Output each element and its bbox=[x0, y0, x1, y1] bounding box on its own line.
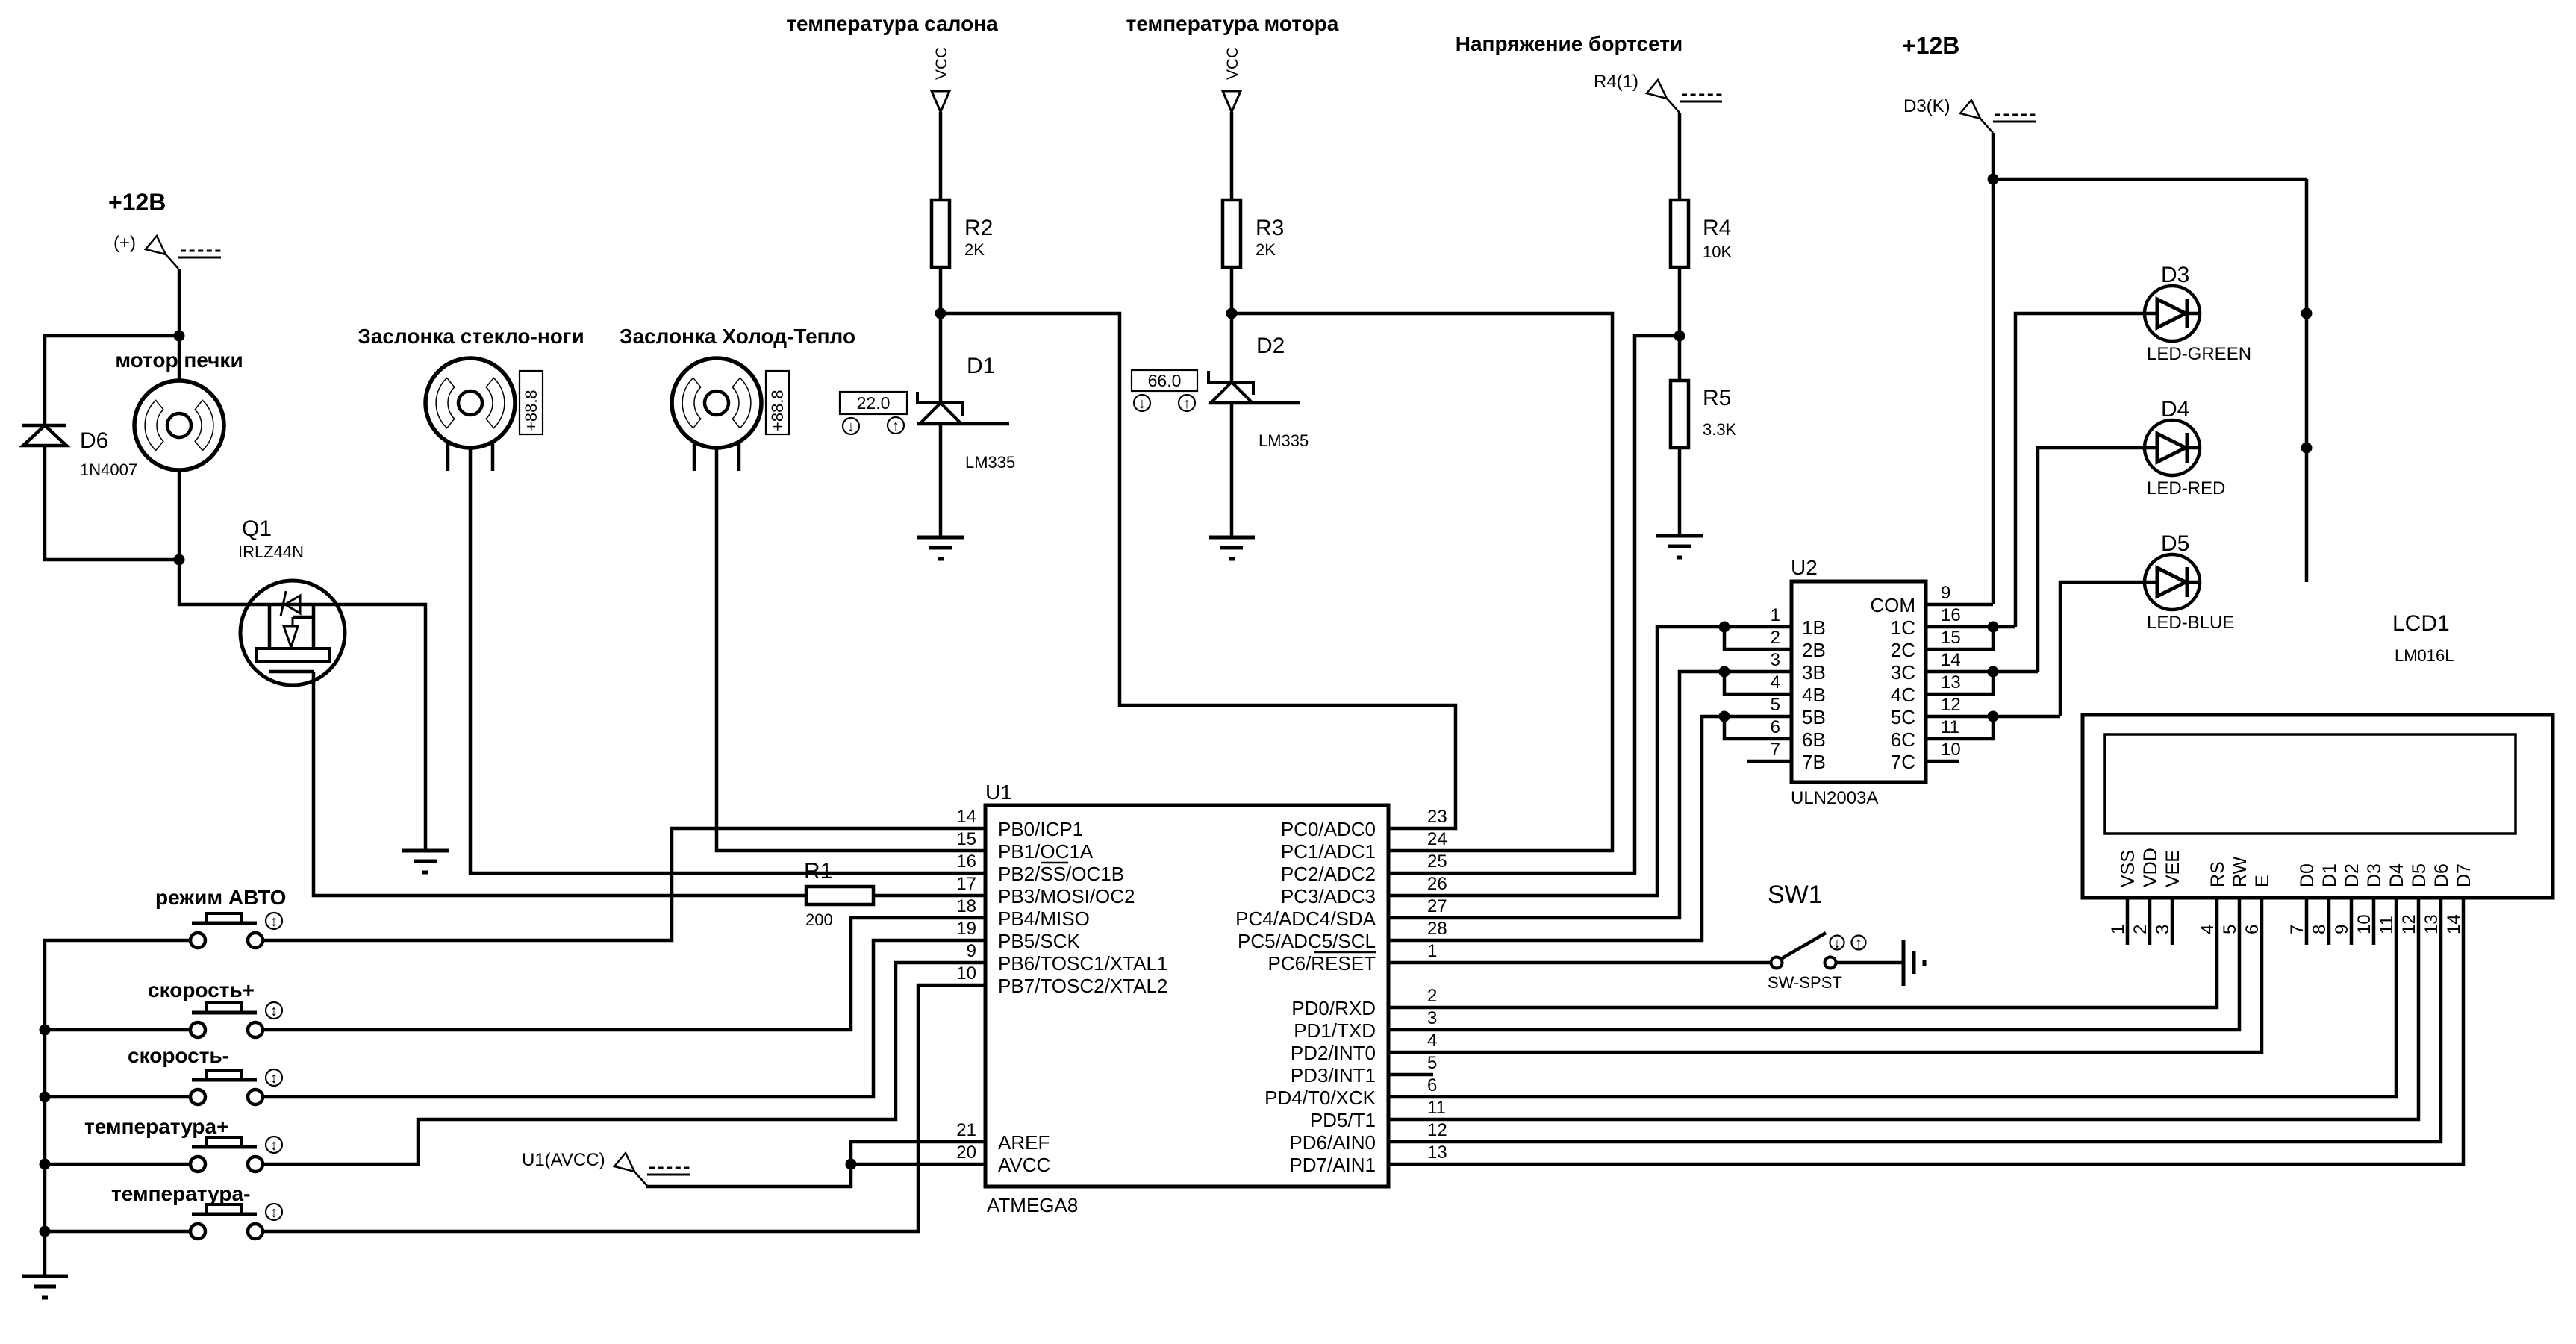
svg-text:4C: 4C bbox=[1891, 684, 1915, 706]
svg-text:+12В: +12В bbox=[108, 189, 166, 216]
LCD1 screen bbox=[2105, 734, 2516, 834]
svg-text:R3: R3 bbox=[1256, 216, 1284, 240]
svg-text:PC3/ADC3: PC3/ADC3 bbox=[1281, 885, 1376, 907]
push button скорость+ bbox=[148, 978, 263, 1037]
svg-text:D3: D3 bbox=[2364, 863, 2385, 887]
meter 22.0 bbox=[840, 392, 907, 414]
svg-text:↓: ↓ bbox=[1833, 935, 1841, 951]
svg-text:11: 11 bbox=[1941, 717, 1959, 737]
wire D6 branch left bbox=[45, 336, 179, 425]
wire D1 cathode bbox=[939, 313, 943, 403]
wire D2 cathode bbox=[1230, 313, 1234, 382]
svg-text:2: 2 bbox=[1771, 628, 1780, 648]
wire R1 to PB3 bbox=[873, 894, 985, 898]
ground D2 bbox=[1209, 537, 1255, 559]
power terminal VCC 1 bbox=[932, 91, 949, 112]
LCD pin D3 stub bbox=[2372, 898, 2376, 945]
node 3C-4C junction bbox=[1988, 666, 1999, 678]
svg-text:13: 13 bbox=[1941, 672, 1961, 693]
LCD pin VDD stub bbox=[2148, 898, 2152, 945]
node divider bbox=[1674, 331, 1685, 342]
svg-text:1: 1 bbox=[2108, 925, 2128, 934]
svg-text:(+): (+) bbox=[113, 233, 136, 253]
wire D2 anode to ground bbox=[1230, 401, 1234, 537]
svg-text:16: 16 bbox=[1941, 605, 1961, 625]
power terminal VCC 2 bbox=[1223, 91, 1241, 112]
svg-text:VSS: VSS bbox=[2118, 850, 2139, 887]
svg-text:Q1: Q1 bbox=[242, 516, 272, 541]
svg-text:ULN2003A: ULN2003A bbox=[1791, 788, 1878, 808]
svg-text:VDD: VDD bbox=[2140, 848, 2161, 887]
wire PD7 to LCD D7 bbox=[1388, 896, 2463, 1164]
svg-text:PB6/TOSC1/XTAL1: PB6/TOSC1/XTAL1 bbox=[998, 952, 1167, 975]
svg-text:4: 4 bbox=[1771, 672, 1780, 693]
wire button rail bbox=[45, 940, 190, 1276]
wire PB3 row left of R1 is drawn with Q1 gate bbox=[0, 0, 1, 1]
wire PC6 to SW1 bbox=[1388, 961, 1771, 965]
svg-text:режим АВТО: режим АВТО bbox=[155, 886, 286, 909]
svg-text:D5: D5 bbox=[2409, 863, 2430, 887]
overline RESET on PC6 bbox=[1314, 951, 1376, 954]
wire AVCC node to AREF pin 21 bbox=[851, 1142, 985, 1164]
push button режим АВТО bbox=[155, 886, 286, 948]
diode D6 (1N4007) bbox=[22, 425, 66, 446]
svg-text:LM016L: LM016L bbox=[2395, 646, 2454, 665]
svg-text:D3: D3 bbox=[2161, 263, 2189, 287]
svg-text:5C: 5C bbox=[1891, 706, 1915, 728]
node motor bottom junction bbox=[174, 554, 185, 566]
wire PD6 to LCD D6 bbox=[1388, 896, 2441, 1142]
svg-text:PC2/ADC2: PC2/ADC2 bbox=[1281, 863, 1376, 885]
svg-text:D3(K): D3(K) bbox=[1903, 96, 1950, 116]
svg-text:6: 6 bbox=[1427, 1075, 1437, 1095]
wire +12V flag to motor node bbox=[178, 269, 181, 336]
wire D1 anode to ground bbox=[939, 424, 943, 537]
svg-text:↓: ↓ bbox=[847, 419, 855, 435]
node motor top junction bbox=[174, 331, 185, 342]
resistor R4 bbox=[1671, 200, 1688, 267]
ground SW1 (rotated) bbox=[1903, 940, 1924, 986]
svg-text:Заслонка стекло-ноги: Заслонка стекло-ноги bbox=[358, 325, 584, 348]
svg-text:RW: RW bbox=[2230, 856, 2251, 887]
svg-text:Заслонка Холод-Тепло: Заслонка Холод-Тепло bbox=[620, 325, 855, 348]
wire D1 node to PC0 pin 23 bbox=[941, 313, 1456, 828]
svg-text:4: 4 bbox=[1427, 1031, 1437, 1051]
svg-text:15: 15 bbox=[1941, 628, 1961, 648]
svg-text:COM: COM bbox=[1870, 594, 1915, 616]
overline SS on PB2 bbox=[1041, 862, 1068, 864]
wire motor bottom lead bbox=[178, 470, 181, 560]
svg-text:LED-BLUE: LED-BLUE bbox=[2147, 613, 2234, 633]
svg-text:26: 26 bbox=[1427, 874, 1447, 894]
svg-text:D6: D6 bbox=[2431, 863, 2452, 887]
button toggle marker bbox=[266, 1002, 282, 1019]
svg-text:1N4007: 1N4007 bbox=[80, 460, 137, 479]
svg-text:4B: 4B bbox=[1802, 684, 1826, 706]
svg-text:LM335: LM335 bbox=[1259, 431, 1309, 450]
toggle arrow down SW1 bbox=[1830, 936, 1844, 950]
ground button rail bbox=[22, 1276, 68, 1298]
svg-text:Напряжение бортсети: Напряжение бортсети bbox=[1456, 32, 1683, 55]
push button скорость- bbox=[128, 1044, 263, 1104]
svg-text:LED-GREEN: LED-GREEN bbox=[2147, 344, 2251, 364]
svg-text:21: 21 bbox=[956, 1120, 976, 1140]
servo1 left pin bbox=[446, 442, 450, 471]
wire PB4 to скорость+ bbox=[263, 918, 985, 1030]
svg-text:17: 17 bbox=[956, 874, 976, 894]
node rail 1380 bbox=[40, 1025, 51, 1036]
svg-text:2: 2 bbox=[2130, 925, 2151, 934]
wire PB5 to скорость- bbox=[263, 940, 985, 1097]
svg-text:27: 27 bbox=[1427, 896, 1447, 916]
svg-text:10K: 10K bbox=[1703, 243, 1732, 261]
meter arrow up D2 bbox=[1179, 395, 1195, 411]
wire VCC to R3 bbox=[1230, 112, 1234, 200]
svg-text:PB2/SS/OC1B: PB2/SS/OC1B bbox=[998, 863, 1124, 885]
svg-text:12: 12 bbox=[1427, 1120, 1447, 1140]
node rail 1650 bbox=[40, 1226, 51, 1237]
svg-text:6B: 6B bbox=[1802, 728, 1826, 751]
svg-text:IRLZ44N: IRLZ44N bbox=[238, 543, 304, 561]
U2 2B pin wire bbox=[1724, 627, 1791, 649]
U2 COM pin wire bbox=[1926, 603, 1993, 607]
svg-text:↑: ↑ bbox=[892, 418, 899, 434]
wire divider to R5 bbox=[1678, 336, 1682, 381]
svg-text:D1: D1 bbox=[2319, 863, 2340, 887]
svg-text:18: 18 bbox=[956, 896, 976, 916]
U2 5C pin wire bbox=[1926, 715, 2060, 719]
button toggle marker bbox=[266, 1069, 282, 1086]
wire PD3 stub bbox=[1388, 1073, 1433, 1077]
svg-text:14: 14 bbox=[956, 807, 976, 827]
svg-text:66.0: 66.0 bbox=[1148, 371, 1182, 390]
U2 1B wire to PC3 bbox=[1388, 627, 1791, 896]
svg-text:5: 5 bbox=[1427, 1053, 1437, 1073]
wire R3 to D2 node bbox=[1230, 267, 1234, 313]
wire PD5 to LCD D5 bbox=[1388, 896, 2418, 1119]
IC U2 ULN2003A body bbox=[1791, 581, 1926, 782]
U2 7B pin stub bbox=[1747, 760, 1791, 763]
LCD1 LM016L body bbox=[2083, 715, 2553, 898]
svg-text:PC5/ADC5/SCL: PC5/ADC5/SCL bbox=[1238, 930, 1376, 952]
svg-text:PB7/TOSC2/XTAL2: PB7/TOSC2/XTAL2 bbox=[998, 975, 1167, 997]
svg-text:PD4/T0/XCK: PD4/T0/XCK bbox=[1264, 1087, 1376, 1109]
push button температура+ bbox=[84, 1115, 263, 1172]
svg-text:2K: 2K bbox=[964, 240, 985, 259]
svg-text:12: 12 bbox=[2399, 914, 2419, 934]
svg-text:5: 5 bbox=[2220, 925, 2240, 934]
resistor R1 (horizontal) bbox=[806, 887, 873, 904]
svg-text:↕: ↕ bbox=[270, 1003, 278, 1019]
node +12V rail top bbox=[1988, 174, 1999, 185]
svg-text:E: E bbox=[2252, 875, 2273, 887]
wire servo1 to PB2 bbox=[470, 448, 985, 873]
svg-text:температура салона: температура салона bbox=[786, 12, 998, 35]
svg-text:7C: 7C bbox=[1891, 751, 1915, 773]
svg-text:ATMEGA8: ATMEGA8 bbox=[987, 1194, 1078, 1216]
svg-text:2: 2 bbox=[1427, 986, 1437, 1006]
node D1 top bbox=[935, 308, 946, 319]
svg-text:12: 12 bbox=[1941, 695, 1961, 715]
svg-text:LED-RED: LED-RED bbox=[2147, 478, 2225, 498]
button toggle marker bbox=[266, 1204, 282, 1220]
wire servo2 to PB1 bbox=[717, 448, 985, 851]
svg-text:3B: 3B bbox=[1802, 661, 1826, 684]
svg-text:10: 10 bbox=[1941, 740, 1961, 760]
svg-text:PB4/MISO: PB4/MISO bbox=[998, 907, 1090, 930]
wire D4 cathode to 3C/4C bbox=[2038, 448, 2145, 672]
wire PB0 to режим АВТО bbox=[263, 828, 985, 940]
wire D2 node to PC1 pin 24 bbox=[1232, 313, 1612, 851]
svg-text:скорость-: скорость- bbox=[128, 1044, 229, 1067]
svg-text:200: 200 bbox=[805, 910, 833, 929]
svg-text:R4: R4 bbox=[1703, 216, 1731, 240]
svg-text:6C: 6C bbox=[1891, 728, 1915, 751]
LCD pin VSS stub bbox=[2126, 898, 2130, 945]
svg-text:3: 3 bbox=[1771, 650, 1780, 670]
sensor D2 LM335 bbox=[1209, 371, 1253, 395]
wire D5 cathode to 5C/6C bbox=[2060, 582, 2145, 716]
wire PD2 to LCD E bbox=[1388, 896, 2262, 1052]
svg-text:9: 9 bbox=[967, 941, 976, 961]
node 1C-2C junction bbox=[1988, 622, 1999, 633]
ground Q1 source bbox=[402, 851, 449, 872]
meter 66.0 bbox=[1132, 370, 1197, 391]
svg-text:VCC: VCC bbox=[933, 47, 950, 80]
resistor R3 bbox=[1223, 200, 1241, 267]
svg-text:R1: R1 bbox=[804, 859, 832, 884]
U2 2C pin wire bbox=[1926, 627, 1993, 649]
node D2 top bbox=[1226, 308, 1238, 319]
wire rail to button row 1650 bbox=[45, 1230, 190, 1234]
svg-text:3.3K: 3.3K bbox=[1703, 420, 1737, 439]
svg-text:D2: D2 bbox=[1256, 334, 1285, 358]
svg-text:VEE: VEE bbox=[2162, 850, 2183, 887]
U2 7C pin stub bbox=[1926, 760, 1959, 763]
svg-text:↑: ↑ bbox=[1855, 935, 1862, 951]
svg-text:13: 13 bbox=[1427, 1143, 1447, 1163]
servo1 right pin bbox=[491, 442, 495, 471]
svg-text:5: 5 bbox=[1771, 695, 1780, 715]
wire D3 cathode to 1C/2C bbox=[2015, 313, 2145, 627]
svg-text:температура мотора: температура мотора bbox=[1126, 12, 1339, 35]
power flag R4(1) bbox=[1647, 80, 1680, 113]
wire AVCC flag to pin 20 bbox=[646, 1164, 985, 1187]
svg-text:VCC: VCC bbox=[1224, 47, 1241, 80]
node rail 1470 bbox=[40, 1092, 51, 1103]
svg-text:D0: D0 bbox=[2297, 863, 2318, 887]
svg-text:AVCC: AVCC bbox=[998, 1154, 1050, 1176]
U2 3C pin wire bbox=[1926, 670, 2038, 674]
svg-text:PD3/INT1: PD3/INT1 bbox=[1291, 1064, 1376, 1087]
svg-text:10: 10 bbox=[956, 963, 976, 984]
wire PB7 to температура- bbox=[263, 985, 985, 1231]
svg-text:PC0/ADC0: PC0/ADC0 bbox=[1281, 818, 1376, 840]
svg-text:9: 9 bbox=[2332, 925, 2352, 934]
svg-text:RS: RS bbox=[2207, 861, 2228, 887]
svg-text:20: 20 bbox=[956, 1143, 976, 1163]
svg-text:14: 14 bbox=[1941, 650, 1961, 670]
svg-text:D6: D6 bbox=[80, 428, 108, 453]
svg-text:5B: 5B bbox=[1802, 706, 1826, 728]
servo motor Заслонка стекло-ноги bbox=[425, 358, 515, 448]
svg-text:13: 13 bbox=[2421, 914, 2442, 934]
power flag D3(K) bbox=[1960, 100, 1993, 133]
svg-text:10: 10 bbox=[2354, 914, 2374, 934]
node D3 rail bbox=[2301, 308, 2313, 319]
node rail 1560 bbox=[40, 1159, 51, 1170]
svg-text:PB0/ICP1: PB0/ICP1 bbox=[998, 818, 1083, 840]
svg-text:11: 11 bbox=[2377, 916, 2397, 934]
button toggle marker bbox=[266, 913, 282, 929]
svg-text:3: 3 bbox=[2153, 925, 2173, 934]
svg-text:19: 19 bbox=[956, 919, 976, 939]
wire rail to button row 1470 bbox=[45, 1095, 190, 1099]
meter arrow down D2 bbox=[1134, 395, 1150, 411]
meter arrow up D1 bbox=[888, 417, 904, 434]
svg-text:+88.8: +88.8 bbox=[768, 390, 787, 431]
U2 6C pin wire bbox=[1926, 716, 1993, 739]
svg-text:↕: ↕ bbox=[270, 913, 278, 930]
svg-text:PD2/INT0: PD2/INT0 bbox=[1291, 1042, 1376, 1064]
wire R5 to ground bbox=[1678, 448, 1682, 536]
svg-text:6: 6 bbox=[2242, 925, 2262, 934]
svg-text:1C: 1C bbox=[1891, 616, 1915, 639]
sensor D1 LM335 bbox=[917, 392, 962, 416]
svg-text:D2: D2 bbox=[2342, 863, 2363, 887]
ground D1 bbox=[917, 537, 964, 559]
svg-text:7: 7 bbox=[2287, 925, 2307, 934]
svg-text:D4: D4 bbox=[2386, 863, 2407, 887]
svg-text:SW1: SW1 bbox=[1768, 881, 1823, 909]
resistor R5 bbox=[1671, 381, 1688, 448]
wire flag to R4 bbox=[1678, 113, 1682, 200]
toggle arrow up SW1 bbox=[1852, 936, 1866, 950]
node 5B-6B junction bbox=[1719, 711, 1730, 722]
svg-text:U1: U1 bbox=[985, 781, 1012, 804]
svg-text:PC4/ADC4/SDA: PC4/ADC4/SDA bbox=[1235, 907, 1376, 930]
svg-text:↑: ↑ bbox=[1183, 396, 1191, 412]
LED D3 bbox=[2145, 286, 2200, 341]
wire PD4 to LCD D4 bbox=[1388, 896, 2396, 1097]
wire PD1 to LCD RW bbox=[1388, 896, 2239, 1030]
svg-text:3: 3 bbox=[1427, 1008, 1437, 1028]
svg-text:PD5/T1: PD5/T1 bbox=[1310, 1109, 1376, 1131]
svg-text:23: 23 bbox=[1427, 807, 1447, 827]
servo motor Заслонка Холод-Тепло bbox=[672, 358, 761, 448]
svg-text:7: 7 bbox=[1771, 740, 1780, 760]
resistor R2 bbox=[932, 200, 949, 267]
svg-text:PD1/TXD: PD1/TXD bbox=[1294, 1019, 1376, 1042]
svg-text:U2: U2 bbox=[1791, 556, 1818, 579]
svg-text:2K: 2K bbox=[1256, 240, 1276, 259]
wire LED anode rail bbox=[2305, 179, 2309, 582]
svg-text:1: 1 bbox=[1427, 941, 1437, 961]
U2 5B wire to PC5 bbox=[1388, 716, 1791, 940]
svg-text:↕: ↕ bbox=[270, 1204, 278, 1221]
svg-text:SW-SPST: SW-SPST bbox=[1768, 973, 1842, 992]
wire PD0 to LCD RS bbox=[1388, 896, 2217, 1007]
svg-text:LM335: LM335 bbox=[965, 453, 1015, 472]
svg-text:R5: R5 bbox=[1703, 386, 1731, 410]
svg-text:24: 24 bbox=[1427, 829, 1447, 849]
svg-text:температура+: температура+ bbox=[84, 1115, 228, 1138]
svg-text:D5: D5 bbox=[2161, 531, 2189, 556]
ground R5 bbox=[1656, 536, 1703, 557]
wire +12V top rail bbox=[1993, 178, 2307, 181]
U2 3B wire to PC4 bbox=[1388, 672, 1791, 918]
svg-text:6: 6 bbox=[1771, 717, 1780, 737]
node D4 rail bbox=[2301, 443, 2313, 454]
svg-text:↓: ↓ bbox=[1138, 396, 1146, 412]
LED D4 bbox=[2145, 420, 2200, 475]
svg-text:1: 1 bbox=[1771, 605, 1780, 625]
svg-text:PB3/MOSI/OC2: PB3/MOSI/OC2 bbox=[998, 885, 1135, 907]
wire flag down to COM bbox=[1992, 133, 1995, 604]
node 5C-6C junction bbox=[1988, 711, 1999, 722]
LCD pin D2 stub bbox=[2350, 898, 2354, 945]
node AVCC bbox=[846, 1159, 857, 1170]
svg-text:R2: R2 bbox=[964, 216, 993, 240]
wire divider to PC2 pin 25 bbox=[1388, 336, 1680, 873]
svg-text:PD0/RXD: PD0/RXD bbox=[1291, 997, 1376, 1019]
svg-text:скорость+: скорость+ bbox=[148, 978, 255, 1001]
node 3B-4B junction bbox=[1719, 666, 1730, 678]
svg-text:D4: D4 bbox=[2161, 397, 2189, 422]
svg-text:PB5/SCK: PB5/SCK bbox=[998, 930, 1080, 952]
svg-text:14: 14 bbox=[2444, 914, 2464, 934]
wire rail to button row 1560 bbox=[45, 1163, 190, 1166]
LCD pin D1 stub bbox=[2327, 898, 2331, 945]
svg-text:11: 11 bbox=[1427, 1098, 1446, 1118]
servo2 right pin bbox=[737, 442, 741, 471]
svg-text:+88.8: +88.8 bbox=[522, 390, 540, 431]
svg-text:8: 8 bbox=[2310, 925, 2330, 934]
transistor Q1 IRLZ44N bbox=[240, 581, 345, 685]
svg-text:PB1/OC1A: PB1/OC1A bbox=[998, 840, 1094, 863]
U2 6B pin wire bbox=[1724, 716, 1791, 739]
push button температура- bbox=[111, 1182, 263, 1239]
svg-text:25: 25 bbox=[1427, 851, 1447, 872]
meter +88.8 servo2 bbox=[766, 371, 789, 434]
svg-text:LCD1: LCD1 bbox=[2392, 611, 2450, 636]
wire VCC to R2 bbox=[939, 112, 943, 200]
LED D5 bbox=[2145, 554, 2200, 610]
svg-text:PC6/RESET: PC6/RESET bbox=[1268, 952, 1376, 975]
meter arrow down D1 bbox=[843, 418, 859, 434]
svg-text:7B: 7B bbox=[1802, 751, 1826, 773]
svg-text:температура-: температура- bbox=[111, 1182, 250, 1205]
button toggle marker bbox=[266, 1137, 282, 1153]
wire Q1 source to ground bbox=[345, 604, 425, 851]
wire PB6 to температура+ bbox=[263, 963, 985, 1164]
wire rail to button row 1380 bbox=[45, 1028, 190, 1032]
LCD pin D0 stub bbox=[2305, 898, 2309, 945]
svg-text:4: 4 bbox=[2198, 925, 2218, 934]
svg-text:PD6/AIN0: PD6/AIN0 bbox=[1289, 1131, 1376, 1154]
svg-text:D1: D1 bbox=[967, 354, 995, 378]
svg-text:16: 16 bbox=[956, 851, 976, 872]
wire SW1 to ground bbox=[1836, 961, 1902, 965]
wire R2 to D1 node bbox=[939, 267, 943, 313]
svg-text:R4(1): R4(1) bbox=[1594, 72, 1638, 92]
IC U1 ATMEGA8 body bbox=[985, 805, 1388, 1187]
servo2 left pin bbox=[693, 442, 696, 471]
svg-text:AREF: AREF bbox=[998, 1131, 1050, 1154]
svg-text:2B: 2B bbox=[1802, 639, 1826, 661]
LCD pin VEE stub bbox=[2171, 898, 2174, 945]
svg-text:22.0: 22.0 bbox=[857, 393, 891, 413]
